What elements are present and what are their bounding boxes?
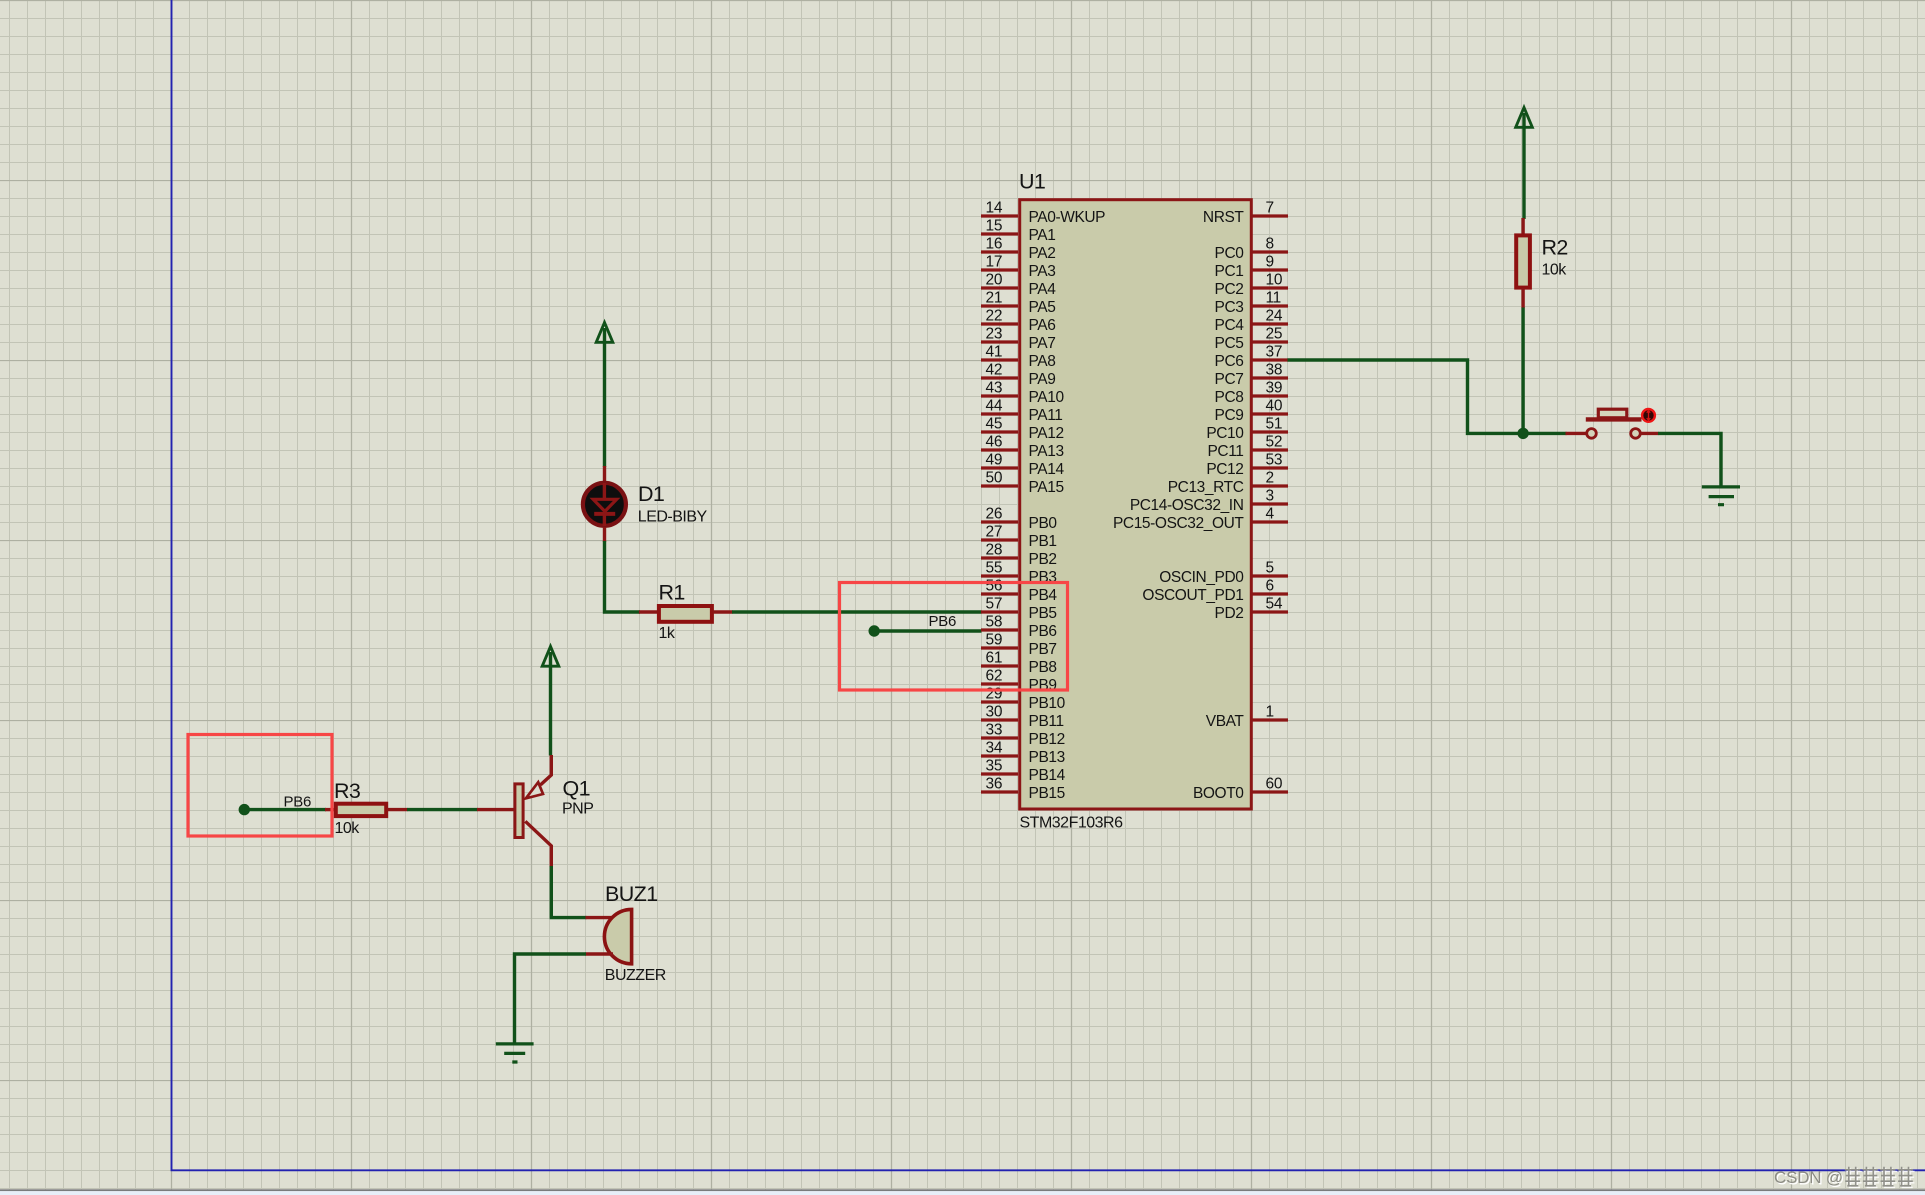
pin 46 (PA13) (981, 434, 1064, 461)
svg-text:6: 6 (1266, 578, 1274, 595)
svg-text:VBAT: VBAT (1206, 713, 1245, 730)
svg-text:PC10: PC10 (1206, 425, 1244, 442)
svg-text:PB2: PB2 (1029, 551, 1057, 568)
pin 11 (PC3) (1215, 290, 1288, 317)
pin 28 (PB2) (981, 542, 1057, 569)
svg-text:56: 56 (986, 578, 1003, 595)
pin 33 (PB12) (981, 722, 1065, 749)
svg-text:PA10: PA10 (1029, 389, 1065, 406)
value BUZZER (605, 967, 666, 984)
pin 26 (PB0) (981, 506, 1057, 533)
svg-text:STM32F103R6: STM32F103R6 (1020, 815, 1124, 832)
svg-text:4: 4 (1266, 506, 1275, 523)
wire power to R2 (1522, 113, 1525, 219)
svg-text:41: 41 (986, 344, 1003, 361)
svg-text:PC4: PC4 (1215, 317, 1245, 334)
svg-text:PC7: PC7 (1215, 371, 1244, 388)
svg-text:PB10: PB10 (1029, 695, 1066, 712)
svg-text:52: 52 (1266, 434, 1283, 451)
svg-text:45: 45 (986, 416, 1003, 433)
pin 24 (PC4) (1215, 308, 1288, 335)
power symbol VCC (above R2) (1516, 108, 1533, 128)
wire R1 to U1 PB5 (732, 610, 982, 613)
BUZ1 bottom pin stub (586, 952, 614, 955)
svg-text:PB4: PB4 (1029, 587, 1058, 604)
pin 42 (PA9) (981, 362, 1055, 389)
IC U1 STM32F103R6 body (1020, 200, 1252, 809)
svg-text:11: 11 (1266, 290, 1282, 307)
svg-text:CSDN @: CSDN @ (1774, 1168, 1843, 1187)
wire BUZ1 to ground (515, 954, 587, 1044)
D1 anode pin stub (603, 466, 606, 482)
pin 14 (PA0-WKUP) (981, 200, 1105, 227)
wire button to ground (1658, 433, 1721, 487)
R1 right pin stub (713, 610, 733, 613)
label R2 (1542, 236, 1568, 260)
svg-text:43: 43 (986, 380, 1003, 397)
svg-text:62: 62 (986, 668, 1003, 685)
pin 57 (PB5) (981, 596, 1057, 623)
svg-text:53: 53 (1266, 452, 1283, 469)
svg-text:PB9: PB9 (1029, 677, 1057, 694)
pin 61 (PB8) (981, 650, 1057, 677)
pin 41 (PA8) (981, 344, 1055, 371)
pin 51 (PC10) (1206, 416, 1288, 443)
pin 15 (PA1) (981, 218, 1055, 245)
svg-text:PA12: PA12 (1029, 425, 1064, 442)
wire R2 to junction (1521, 308, 1524, 436)
svg-text:D1: D1 (638, 482, 664, 506)
pin 27 (PB1) (981, 524, 1057, 551)
svg-text:14: 14 (986, 200, 1003, 217)
pin 23 (PA7) (981, 326, 1055, 353)
svg-text:PA8: PA8 (1029, 353, 1056, 370)
svg-text:40: 40 (1266, 398, 1283, 415)
wire U1 PC6 to button (1288, 360, 1567, 433)
pin 36 (PB15) (981, 776, 1065, 803)
svg-text:PB6: PB6 (929, 613, 956, 630)
svg-text:49: 49 (986, 452, 1003, 469)
svg-text:PA1: PA1 (1029, 227, 1056, 244)
svg-text:33: 33 (986, 722, 1003, 739)
svg-text:PA2: PA2 (1029, 245, 1056, 262)
svg-text:55: 55 (986, 560, 1003, 577)
svg-text:PA4: PA4 (1029, 281, 1057, 298)
Q1 base pin stub (477, 808, 514, 811)
value 1k (659, 625, 676, 642)
selection box (PB6 net label at R3) (188, 735, 332, 837)
svg-text:PC15-OSC32_OUT: PC15-OSC32_OUT (1113, 515, 1244, 532)
D1 cathode pin stub (603, 527, 606, 542)
svg-text:16: 16 (986, 236, 1003, 253)
svg-text:R3: R3 (334, 779, 361, 803)
pin 50 (PA15) (981, 470, 1064, 497)
LED D1 (583, 483, 626, 526)
transistor Q1 (PNP) (515, 755, 551, 867)
svg-text:36: 36 (986, 776, 1003, 793)
svg-text:29: 29 (986, 686, 1003, 703)
svg-text:50: 50 (986, 470, 1003, 487)
svg-text:PA3: PA3 (1029, 263, 1056, 280)
svg-text:PA14: PA14 (1029, 461, 1065, 478)
svg-text:PC8: PC8 (1215, 389, 1244, 406)
svg-text:PD2: PD2 (1215, 605, 1244, 622)
resistor R3 (336, 804, 386, 816)
svg-text:PA15: PA15 (1029, 479, 1064, 496)
svg-text:PC12: PC12 (1206, 461, 1243, 478)
push button contacts (1587, 429, 1641, 439)
svg-text:PB7: PB7 (1029, 641, 1057, 658)
pin 8 (PC0) (1215, 236, 1288, 263)
pin 43 (PA10) (981, 380, 1064, 407)
svg-text:44: 44 (986, 398, 1003, 415)
svg-text:PB14: PB14 (1029, 767, 1066, 784)
selection box (PB4-PB9 pins) (840, 583, 1068, 691)
R3 right pin stub (387, 808, 408, 811)
svg-text:PA7: PA7 (1029, 335, 1056, 352)
R1 left pin stub (639, 610, 658, 613)
pin 38 (PC7) (1215, 362, 1288, 389)
button right pin stub (1641, 432, 1659, 435)
svg-text:24: 24 (1266, 308, 1283, 325)
label R3 (334, 779, 361, 803)
svg-text:9: 9 (1266, 254, 1274, 271)
pin 7 (NRST) (1203, 200, 1288, 227)
pin 29 (PB10) (981, 686, 1066, 713)
value 10k (1542, 262, 1568, 279)
svg-text:PC13_RTC: PC13_RTC (1168, 479, 1244, 496)
svg-text:OSCIN_PD0: OSCIN_PD0 (1159, 569, 1244, 586)
svg-text:PA9: PA9 (1029, 371, 1056, 388)
svg-text:PA0-WKUP: PA0-WKUP (1029, 209, 1106, 226)
ground symbol (buzzer) (496, 1044, 534, 1062)
svg-text:3: 3 (1266, 488, 1274, 505)
push button cap (1598, 409, 1627, 418)
net label PB6 (R3) (284, 794, 311, 811)
svg-text:34: 34 (986, 740, 1003, 757)
value 10k (R3) (335, 820, 361, 837)
svg-text:PA6: PA6 (1029, 317, 1056, 334)
svg-text:1: 1 (1266, 704, 1274, 721)
svg-text:61: 61 (986, 650, 1003, 667)
svg-text:57: 57 (986, 596, 1003, 613)
pin 20 (PA4) (981, 272, 1056, 299)
wire R3 to Q1 base (407, 808, 478, 811)
net label PB6 (929, 613, 956, 630)
value PNP (562, 801, 593, 818)
svg-text:23: 23 (986, 326, 1003, 343)
svg-text:R1: R1 (659, 581, 685, 605)
wire PB6 dot to R3 (244, 808, 326, 811)
junction dot PB6 (R3) (239, 804, 250, 815)
pin 4 (PC15-OSC32_OUT) (1113, 506, 1288, 533)
svg-text:10: 10 (1266, 272, 1283, 289)
junction dot R2/button (1517, 428, 1528, 439)
svg-text:38: 38 (1266, 362, 1283, 379)
pin 22 (PA6) (981, 308, 1055, 335)
wire D1 to R1 (corner) (605, 541, 641, 612)
pin 62 (PB9) (981, 668, 1057, 695)
svg-text:PC11: PC11 (1207, 443, 1243, 460)
button interactive marker (1642, 409, 1655, 422)
svg-text:51: 51 (1266, 416, 1283, 433)
svg-text:PB12: PB12 (1029, 731, 1065, 748)
svg-text:60: 60 (1266, 776, 1283, 793)
resistor R1 (659, 606, 712, 622)
svg-text:27: 27 (986, 524, 1003, 541)
svg-text:37: 37 (1266, 344, 1283, 361)
svg-text:PB1: PB1 (1029, 533, 1057, 550)
svg-text:BOOT0: BOOT0 (1193, 785, 1244, 802)
pin 44 (PA11) (981, 398, 1063, 425)
pin 45 (PA12) (981, 416, 1064, 443)
pin 21 (PA5) (981, 290, 1055, 317)
svg-text:NRST: NRST (1203, 209, 1245, 226)
pin 58 (PB6) (981, 614, 1057, 641)
svg-text:PC0: PC0 (1215, 245, 1245, 262)
svg-text:8: 8 (1266, 236, 1274, 253)
svg-text:15: 15 (986, 218, 1003, 235)
svg-text:PB8: PB8 (1029, 659, 1057, 676)
window bottom edge (0, 1189, 1925, 1195)
svg-text:PC2: PC2 (1215, 281, 1244, 298)
svg-text:PC5: PC5 (1215, 335, 1244, 352)
label Q1 (563, 776, 590, 800)
pin 9 (PC1) (1215, 254, 1288, 281)
svg-text:58: 58 (986, 614, 1003, 631)
svg-text:U1: U1 (1019, 170, 1045, 194)
watermark CSDN @花落已飘 (1774, 1167, 1915, 1189)
label R1 (659, 581, 685, 605)
pin 54 (PD2) (1215, 596, 1288, 623)
R2 top pin stub (1521, 218, 1524, 235)
pin 35 (PB14) (981, 758, 1066, 785)
svg-text:BUZZER: BUZZER (605, 967, 666, 984)
svg-text:PNP: PNP (562, 801, 593, 818)
svg-text:PC9: PC9 (1215, 407, 1244, 424)
pin 16 (PA2) (981, 236, 1055, 263)
svg-text:OSCOUT_PD1: OSCOUT_PD1 (1142, 587, 1243, 604)
svg-text:5: 5 (1266, 560, 1274, 577)
svg-text:PC1: PC1 (1215, 263, 1244, 280)
svg-text:59: 59 (986, 632, 1003, 649)
svg-text:26: 26 (986, 506, 1003, 523)
push button actuator bar (1586, 417, 1642, 421)
svg-text:46: 46 (986, 434, 1003, 451)
label BUZ1 (605, 882, 658, 906)
pin 60 (BOOT0) (1193, 776, 1288, 803)
svg-text:PA13: PA13 (1029, 443, 1064, 460)
svg-text:39: 39 (1266, 380, 1283, 397)
svg-text:PB11: PB11 (1029, 713, 1064, 730)
svg-text:PB13: PB13 (1029, 749, 1065, 766)
svg-text:28: 28 (986, 542, 1003, 559)
svg-text:PC3: PC3 (1215, 299, 1244, 316)
pin 52 (PC11) (1207, 434, 1288, 461)
pin 2 (PC13_RTC) (1168, 470, 1288, 497)
power symbol VCC (above Q1) (542, 646, 559, 666)
junction dot PB6 (869, 625, 880, 636)
pin 40 (PC9) (1215, 398, 1288, 425)
R3 left pin stub (325, 808, 335, 811)
svg-text:PB5: PB5 (1029, 605, 1057, 622)
pin 55 (PB3) (981, 560, 1057, 587)
pin 53 (PC12) (1206, 452, 1288, 479)
pin 17 (PA3) (981, 254, 1055, 281)
pin 6 (OSCOUT_PD1) (1142, 578, 1288, 605)
svg-text:35: 35 (986, 758, 1003, 775)
value STM32F103R6 (1020, 815, 1124, 832)
pin 1 (VBAT) (1206, 704, 1288, 731)
pin 39 (PC8) (1215, 380, 1288, 407)
wire Q1 collector to BUZ1 (551, 866, 586, 918)
svg-text:PB6: PB6 (1029, 623, 1057, 640)
pin 49 (PA14) (981, 452, 1064, 479)
value LED-BIBY (638, 509, 708, 526)
R2 bottom pin stub (1521, 288, 1524, 308)
svg-text:PA11: PA11 (1029, 407, 1063, 424)
pin 10 (PC2) (1215, 272, 1288, 299)
svg-text:10k: 10k (335, 820, 361, 837)
pin 37 (PC6) (1215, 344, 1288, 371)
ground symbol (button) (1702, 487, 1740, 505)
pin 56 (PB4) (981, 578, 1057, 605)
svg-text:21: 21 (986, 290, 1003, 307)
pin 59 (PB7) (981, 632, 1057, 659)
svg-text:LED-BIBY: LED-BIBY (638, 509, 708, 526)
wire PB6 stub to U1 (874, 629, 982, 632)
svg-text:PC14-OSC32_IN: PC14-OSC32_IN (1130, 497, 1244, 514)
resistor R2 (1516, 235, 1530, 287)
svg-text:25: 25 (1266, 326, 1283, 343)
svg-text:PB15: PB15 (1029, 785, 1065, 802)
svg-text:1k: 1k (659, 625, 676, 642)
pin 30 (PB11) (981, 704, 1064, 731)
power symbol VCC (above D1) (596, 323, 613, 343)
svg-text:54: 54 (1266, 596, 1283, 613)
svg-text:22: 22 (986, 308, 1003, 325)
svg-text:BUZ1: BUZ1 (605, 882, 658, 906)
button left pin stub (1566, 432, 1588, 435)
wire power to D1 anode (603, 328, 606, 467)
svg-text:20: 20 (986, 272, 1003, 289)
svg-text:30: 30 (986, 704, 1003, 721)
svg-text:R2: R2 (1542, 236, 1568, 260)
pin 25 (PC5) (1215, 326, 1288, 353)
svg-text:PA5: PA5 (1029, 299, 1056, 316)
BUZ1 top pin stub (586, 916, 613, 919)
buzzer BUZ1 (604, 909, 631, 963)
svg-text:PC6: PC6 (1215, 353, 1244, 370)
pin 5 (OSCIN_PD0) (1159, 560, 1288, 587)
svg-text:7: 7 (1266, 200, 1274, 217)
svg-text:42: 42 (986, 362, 1003, 379)
svg-text:2: 2 (1266, 470, 1274, 487)
label D1 (638, 482, 664, 506)
svg-text:PB0: PB0 (1029, 515, 1058, 532)
svg-text:17: 17 (986, 254, 1003, 271)
wire power to Q1 emitter (549, 652, 552, 756)
pin 34 (PB13) (981, 740, 1065, 767)
svg-text:Q1: Q1 (563, 776, 590, 800)
svg-text:10k: 10k (1542, 262, 1568, 279)
pin 3 (PC14-OSC32_IN) (1130, 488, 1288, 515)
label U1 (1019, 170, 1045, 194)
